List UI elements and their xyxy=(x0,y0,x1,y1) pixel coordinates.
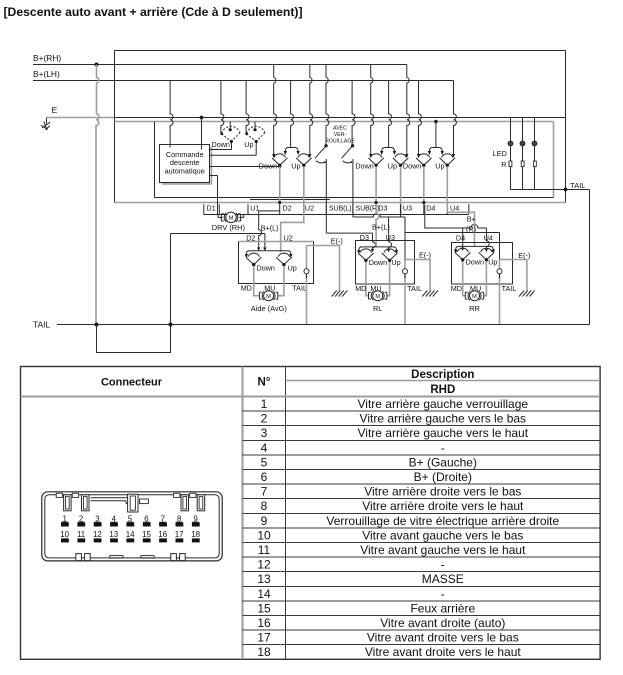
wire RR MD lead xyxy=(463,262,466,296)
wire vertical from B+RH x370.7 xyxy=(371,65,374,158)
svg-text:1: 1 xyxy=(261,397,268,411)
wire RR lamp/TAIL (gray) xyxy=(499,260,501,325)
wire B+(LH) bus xyxy=(33,80,454,82)
wire stub4 box to D1 xyxy=(210,175,218,177)
svg-text:MD: MD xyxy=(355,284,366,293)
svg-text:17: 17 xyxy=(257,631,271,645)
svg-text:D3: D3 xyxy=(378,204,387,213)
wire vertical from B+LH x388.6 xyxy=(389,81,392,148)
wire Aide lamp/TAIL (gray) xyxy=(306,246,308,325)
connector drawing xyxy=(42,492,222,561)
resistor R2 xyxy=(521,161,524,167)
wire apex drop C-Down xyxy=(423,167,425,203)
table outer border xyxy=(21,367,601,660)
contact fan RL-Up xyxy=(382,249,398,262)
svg-text:D2: D2 xyxy=(283,204,292,213)
svg-text:U2: U2 xyxy=(305,204,314,213)
svg-text:Connecteur: Connecteur xyxy=(101,376,163,388)
pin pads row 2 xyxy=(61,538,200,542)
svg-text:18: 18 xyxy=(257,645,271,659)
svg-text:SUB(L): SUB(L) xyxy=(329,206,352,213)
svg-text:16: 16 xyxy=(158,530,167,539)
key slot 4 xyxy=(197,495,205,511)
ground Aide xyxy=(332,291,348,297)
rocker bar Aide xyxy=(246,251,291,255)
wire vertical from B+LH x352.1 (lock B feed) xyxy=(352,81,355,145)
lamp RL xyxy=(403,269,408,274)
wire E(-) RR (gray) xyxy=(500,260,527,291)
wire apex drop B-Up xyxy=(400,167,402,215)
switch box RL xyxy=(356,241,415,285)
LED wire 3 xyxy=(534,118,536,190)
svg-text:MD: MD xyxy=(241,283,252,292)
pin numbers row 1 xyxy=(63,514,199,523)
wire gray box bottom y202.5 xyxy=(115,202,566,204)
svg-text:12: 12 xyxy=(93,530,102,539)
connector inner shell xyxy=(45,495,219,558)
svg-text:Vitre avant droite vers le bas: Vitre avant droite vers le bas xyxy=(367,631,519,645)
svg-text:Up: Up xyxy=(488,258,497,267)
relay box Commande descente automatique xyxy=(160,145,210,183)
wire Aide MU lead xyxy=(278,266,284,295)
svg-text:MD: MD xyxy=(451,284,462,293)
wire gray box top y121.5 xyxy=(115,121,554,123)
switch box RR xyxy=(452,243,513,285)
bottom notch 1 xyxy=(110,556,123,559)
wire vertical from B+LH x220.9 xyxy=(221,81,224,134)
svg-text:Down: Down xyxy=(369,258,387,267)
contact fan C-Down xyxy=(416,154,432,167)
table row lines xyxy=(243,411,601,645)
ground RL xyxy=(422,291,438,297)
wire inner box bottom black y198 xyxy=(155,198,554,200)
bottom notch 2 xyxy=(141,556,154,559)
node junction TAIL x96 xyxy=(95,323,99,327)
node junction x565.7 on TAIL stub xyxy=(564,188,568,192)
rocker bar pair C xyxy=(429,148,442,152)
rocker bar RL xyxy=(359,247,397,251)
svg-text:B+ (Gauche): B+ (Gauche) xyxy=(409,455,477,469)
svg-text:Down: Down xyxy=(403,162,421,171)
switch Up (auto, dashed) xyxy=(253,128,256,131)
svg-text:D4: D4 xyxy=(426,204,435,213)
row numbers xyxy=(257,397,271,659)
svg-text:U4: U4 xyxy=(484,234,493,243)
wire vertical x201.4 into Commande box xyxy=(201,118,203,150)
svg-text:Down: Down xyxy=(212,140,230,149)
wire TAIL right riser xyxy=(589,190,591,325)
svg-text:Up: Up xyxy=(244,140,253,149)
switch box Aide (AvG) xyxy=(239,242,314,284)
svg-text:6: 6 xyxy=(261,470,268,484)
svg-text:2: 2 xyxy=(261,412,268,426)
svg-text:U1: U1 xyxy=(250,204,259,213)
svg-text:Up: Up xyxy=(291,162,300,171)
wire LED bottom / TAIL stub xyxy=(511,189,590,191)
svg-text:Description: Description xyxy=(411,369,474,381)
key tab 2 xyxy=(72,493,78,497)
svg-text:R: R xyxy=(501,160,506,169)
wire B+(R) feed RR (gray) xyxy=(447,205,474,247)
wire vertical from B+RH x309.8 xyxy=(310,65,313,158)
svg-text:DRV (RH): DRV (RH) xyxy=(212,223,245,232)
resistor R3 xyxy=(533,161,536,167)
contact fan C-Up xyxy=(440,154,456,167)
svg-text:D4: D4 xyxy=(456,234,465,243)
wire apex drop B-Down xyxy=(375,167,377,203)
svg-text:LED: LED xyxy=(493,149,507,158)
wire U2 feed Aide xyxy=(281,205,304,252)
LED 2 xyxy=(520,141,525,146)
svg-text:11: 11 xyxy=(77,530,85,539)
svg-text:RHD: RHD xyxy=(430,384,455,396)
contact fan RR-Down xyxy=(455,248,471,261)
svg-text:TAIL: TAIL xyxy=(502,284,517,293)
wire RR MU lead xyxy=(484,262,487,296)
contact fan RR-Up xyxy=(479,248,495,261)
svg-text:15: 15 xyxy=(142,530,151,539)
svg-text:Down: Down xyxy=(355,162,373,171)
svg-text:Aide (AvG): Aide (AvG) xyxy=(251,304,287,313)
key bar long xyxy=(91,498,133,504)
wire RL MU lead xyxy=(387,262,390,296)
wire D4 feed staircase xyxy=(425,205,490,249)
wire vertical from B+LH x418.5 xyxy=(419,81,422,158)
box shadow gray xyxy=(162,147,212,184)
svg-text:10: 10 xyxy=(60,530,69,539)
svg-text:Vitre avant droite (auto): Vitre avant droite (auto) xyxy=(380,616,505,630)
wire vertical from B+LH x290.6 xyxy=(291,81,294,148)
wire B+(RH) bus xyxy=(33,64,407,66)
svg-text:B+(RH): B+(RH) xyxy=(33,53,61,63)
connector outer shell xyxy=(42,492,222,561)
table divider N/Description xyxy=(285,367,287,660)
rocker bar pair A xyxy=(285,148,298,152)
node junction stub3/apex drop xyxy=(278,165,281,168)
wire inner line black y117.7 xyxy=(115,117,566,119)
svg-text:Up: Up xyxy=(391,258,400,267)
svg-text:E(-): E(-) xyxy=(419,250,431,259)
ground at E xyxy=(41,118,50,130)
svg-text:Vitre arrière droite vers le b: Vitre arrière droite vers le bas xyxy=(364,485,521,499)
svg-text:13: 13 xyxy=(109,530,118,539)
node junction B+(RH) x96 xyxy=(95,63,99,67)
wire vertical from B+LH x246.1 xyxy=(246,81,249,134)
svg-text:AVEC: AVEC xyxy=(333,126,347,132)
pin pads row 1 xyxy=(61,523,200,527)
box Aide top edge gray xyxy=(239,241,314,243)
svg-text:RR: RR xyxy=(469,304,480,313)
svg-text:Up: Up xyxy=(435,162,444,171)
svg-text:[Descente auto avant + arrière: [Descente auto avant + arrière (Cde à D … xyxy=(4,5,303,19)
contact fan B-Down xyxy=(368,154,384,167)
wire RL lamp/TAIL (gray) xyxy=(404,260,406,325)
svg-text:-: - xyxy=(441,558,445,572)
switch lock B xyxy=(351,144,354,147)
contact fan RL-Down xyxy=(358,249,374,262)
svg-text:4: 4 xyxy=(261,441,268,455)
wire outer box top xyxy=(115,50,566,52)
wire gray vertical x170.1 to Commande box xyxy=(170,81,173,148)
svg-text:Vitre avant gauche vers le bas: Vitre avant gauche vers le bas xyxy=(362,528,523,542)
wire stub2 box to Up switch xyxy=(210,142,257,156)
node junction TAIL x170.4 xyxy=(169,323,173,327)
svg-text:automatique: automatique xyxy=(165,166,205,175)
switch lock A xyxy=(324,144,327,147)
wire E(-) RL (gray) xyxy=(405,260,430,291)
wire TAIL bus xyxy=(57,324,590,326)
contact fan Aide-Up xyxy=(276,253,292,266)
wire gray box right edge xyxy=(553,122,555,198)
svg-text:RL: RL xyxy=(373,304,382,313)
node junction x435.9 on gray y121.5 xyxy=(434,120,438,124)
svg-text:E(-): E(-) xyxy=(518,251,530,260)
LED wire 1 xyxy=(510,118,512,190)
svg-text:U4: U4 xyxy=(450,204,459,213)
wire outer box left edge xyxy=(114,51,116,203)
svg-text:E(-): E(-) xyxy=(331,237,343,246)
key bar short xyxy=(140,499,149,504)
svg-text:Vitre arrière gauche vers le h: Vitre arrière gauche vers le haut xyxy=(358,426,529,440)
motor Aide xyxy=(259,291,277,301)
row descriptions xyxy=(326,397,559,659)
svg-text:16: 16 xyxy=(257,616,271,630)
svg-text:(R): (R) xyxy=(466,225,476,234)
key tab 3 xyxy=(174,493,180,497)
wire D2 feed (tail riser to Aide) xyxy=(171,234,265,248)
svg-text:B+: B+ xyxy=(467,215,476,224)
wire RL MD lead xyxy=(366,262,369,296)
lamp RR xyxy=(497,269,502,274)
ground RR xyxy=(519,291,535,297)
wire vertical x435.9 (pair C bar feed) xyxy=(435,122,437,148)
wire outer box right edge xyxy=(565,51,567,203)
svg-text:Down: Down xyxy=(466,258,484,267)
svg-text:11: 11 xyxy=(258,543,271,557)
svg-text:Vitre avant droite vers le hau: Vitre avant droite vers le haut xyxy=(365,645,522,659)
svg-text:Down: Down xyxy=(257,264,275,273)
svg-text:B+(L): B+(L) xyxy=(261,223,279,232)
svg-text:Feux arrière: Feux arrière xyxy=(410,601,475,615)
connector bracket line xyxy=(204,214,469,216)
wire gray rail x96 (B+RH down to TAIL) xyxy=(96,65,99,325)
wire E bus (gray) xyxy=(47,117,115,119)
svg-text:18: 18 xyxy=(191,530,200,539)
table divider Connecteur/N (gray) xyxy=(242,367,244,660)
key slot 3 xyxy=(181,495,189,511)
wire apex drop A-Down xyxy=(279,167,281,203)
table header bottom line (gray) xyxy=(21,396,601,398)
table header mid line xyxy=(286,380,601,382)
svg-text:7: 7 xyxy=(261,485,268,499)
wire D3 feed staircase xyxy=(326,205,499,260)
wire vertical from B+LH x453.5 (end corner) xyxy=(454,81,457,158)
svg-text:TAIL: TAIL xyxy=(407,284,422,293)
svg-text:TAIL: TAIL xyxy=(570,181,585,190)
contact fan Aide-Down xyxy=(246,253,262,266)
svg-text:TAIL: TAIL xyxy=(292,283,307,292)
key slot 2 xyxy=(82,495,90,511)
wire vertical from B+RH x273.7 xyxy=(274,65,277,158)
key slot center xyxy=(128,494,138,512)
rocker bar pair B xyxy=(382,148,395,152)
svg-text:13: 13 xyxy=(257,572,271,586)
svg-text:D1: D1 xyxy=(207,204,216,213)
svg-text:Up: Up xyxy=(388,162,397,171)
svg-text:VER-: VER- xyxy=(334,132,347,138)
wire B+(L) feed Aide (gray) xyxy=(259,211,280,247)
motor RR xyxy=(465,291,483,301)
svg-text:Vitre arrière gauche vers le b: Vitre arrière gauche vers le bas xyxy=(360,412,527,426)
svg-text:5: 5 xyxy=(261,455,268,469)
wire Aide MD lead xyxy=(254,266,260,295)
contact fan A-Up xyxy=(296,154,312,167)
svg-text:12: 12 xyxy=(257,558,271,572)
svg-text:17: 17 xyxy=(175,530,184,539)
wire vertical from B+RH x326 (lock A feed) xyxy=(326,65,329,145)
motor RL xyxy=(369,291,387,301)
svg-text:TAIL: TAIL xyxy=(33,319,50,329)
wire D1 pin wire xyxy=(217,176,219,215)
svg-text:B+ (Droite): B+ (Droite) xyxy=(414,470,472,484)
wire inner box left edge xyxy=(154,122,156,198)
motor DRV (RH) xyxy=(218,212,244,223)
svg-text:MASSE: MASSE xyxy=(422,572,464,586)
svg-text:-: - xyxy=(441,441,445,455)
LED 1 xyxy=(508,141,513,146)
LED 3 xyxy=(532,141,537,146)
rocker bar RR xyxy=(456,246,494,250)
bottom tab pair right xyxy=(171,554,177,561)
wire B+(L) feed RL (gray) xyxy=(376,205,379,247)
pin number underlines xyxy=(61,521,199,523)
node junction x201.4 on y117.7 xyxy=(200,116,204,120)
wire stub1 box to Down switch xyxy=(210,142,232,150)
wire apex drop A-Up xyxy=(303,167,305,215)
svg-text:Up: Up xyxy=(288,264,297,273)
wire apex drop C-Up xyxy=(446,167,448,215)
svg-text:Vitre avant gauche vers le hau: Vitre avant gauche vers le haut xyxy=(360,543,526,557)
wire TAIL loop xyxy=(97,325,171,353)
svg-text:9: 9 xyxy=(261,514,268,528)
svg-text:B+(LH): B+(LH) xyxy=(33,69,60,79)
pin numbers row 2 xyxy=(60,530,200,539)
bracket pin ticks xyxy=(204,204,469,214)
lamp Aide xyxy=(304,269,309,274)
svg-text:N°: N° xyxy=(258,376,271,388)
svg-text:14: 14 xyxy=(126,530,135,539)
svg-text:B+(L): B+(L) xyxy=(372,223,390,232)
wire vertical from B+RH x406.8 (end corner) xyxy=(407,65,410,158)
svg-text:U3: U3 xyxy=(403,204,412,213)
svg-text:8: 8 xyxy=(261,499,268,513)
key slot 1 xyxy=(64,495,72,511)
TABLE xyxy=(21,367,601,660)
svg-text:10: 10 xyxy=(257,528,271,542)
svg-text:15: 15 xyxy=(257,601,271,615)
bottom tab pair left xyxy=(76,554,82,561)
svg-text:ROUILLAGE: ROUILLAGE xyxy=(325,138,355,144)
svg-text:Down: Down xyxy=(259,162,277,171)
svg-text:-: - xyxy=(441,587,445,601)
LED wire 2 xyxy=(522,118,524,190)
svg-text:Vitre arrière gauche verrouill: Vitre arrière gauche verrouillage xyxy=(358,397,529,411)
svg-text:Verrouillage de vitre électriq: Verrouillage de vitre électrique arrière… xyxy=(326,514,559,528)
key tab 1 xyxy=(56,493,62,497)
contact fan B-Up xyxy=(393,154,409,167)
wire E(-) Aide (gray) xyxy=(307,246,340,291)
key tab 4 xyxy=(190,493,196,497)
resistor R1 xyxy=(509,161,512,167)
contact fan A-Down xyxy=(272,154,288,167)
wire tail riser x170.4 xyxy=(170,234,172,325)
arm feed arrowheads xyxy=(272,154,455,158)
svg-text:3: 3 xyxy=(261,426,268,440)
svg-text:Vitre arrière droite vers le h: Vitre arrière droite vers le haut xyxy=(362,499,524,513)
switch Down (auto, dashed) xyxy=(229,128,232,131)
wire stub3 box to D2 apex xyxy=(210,166,280,168)
svg-text:E: E xyxy=(52,105,58,115)
svg-text:14: 14 xyxy=(257,587,271,601)
